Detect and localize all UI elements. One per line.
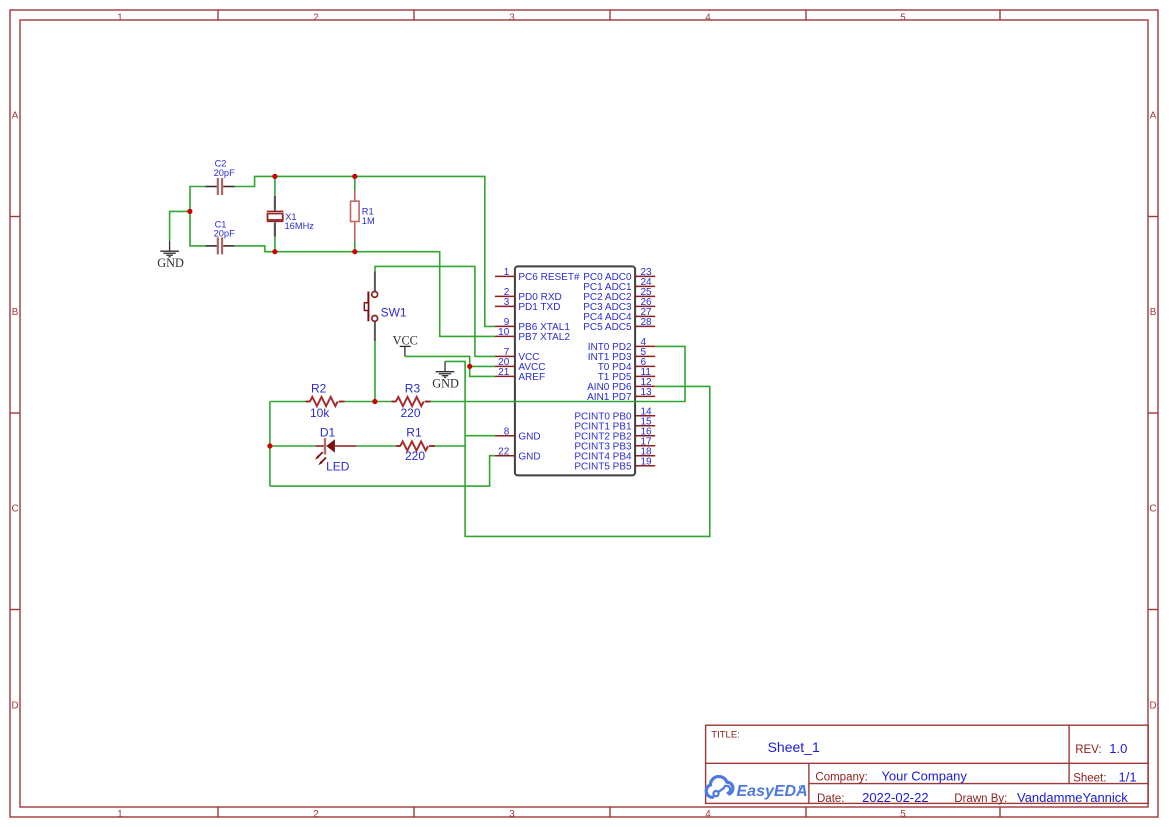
svg-text:2022-02-22: 2022-02-22 [862,790,929,805]
svg-text:8: 8 [504,426,510,437]
svg-text:SW1: SW1 [381,305,407,319]
svg-text:1/1: 1/1 [1119,770,1137,785]
svg-text:1M: 1M [362,216,375,226]
svg-text:REV:: REV: [1075,744,1101,756]
svg-text:D: D [1149,700,1156,711]
svg-text:22: 22 [498,446,510,457]
svg-text:220: 220 [405,449,425,463]
svg-text:28: 28 [641,317,653,328]
svg-text:1: 1 [117,13,122,24]
svg-text:VCC: VCC [393,333,418,347]
svg-text:19: 19 [641,456,653,467]
svg-text:PB7 XTAL2: PB7 XTAL2 [518,332,570,343]
svg-text:4: 4 [705,809,711,820]
svg-text:21: 21 [498,367,510,378]
svg-text:3: 3 [509,809,515,820]
svg-text:2: 2 [313,809,318,820]
svg-text:20pF: 20pF [214,228,236,238]
svg-text:B: B [1150,307,1157,318]
svg-text:Sheet:: Sheet: [1073,773,1106,785]
svg-text:Your Company: Your Company [881,768,967,783]
svg-text:GND: GND [157,256,184,270]
svg-text:EasyEDA: EasyEDA [737,783,808,800]
svg-text:GND: GND [432,377,459,391]
svg-text:TITLE:: TITLE: [711,730,740,741]
svg-text:B: B [12,307,19,318]
svg-text:LED: LED [326,460,350,474]
svg-text:C: C [11,504,18,515]
svg-text:1.0: 1.0 [1109,741,1127,756]
svg-text:1: 1 [504,267,510,278]
svg-text:10: 10 [498,327,510,338]
svg-text:R1: R1 [406,426,422,440]
svg-text:13: 13 [641,387,653,398]
svg-text:D1: D1 [320,426,336,440]
svg-text:3: 3 [504,297,510,308]
svg-text:Date:: Date: [817,793,845,805]
svg-text:D: D [11,700,18,711]
svg-text:5: 5 [900,13,906,24]
svg-text:Company:: Company: [815,771,867,783]
svg-text:5: 5 [900,809,906,820]
svg-text:VandammeYannick: VandammeYannick [1017,790,1128,805]
svg-text:3: 3 [509,13,515,24]
svg-text:A: A [1150,111,1157,122]
svg-text:10k: 10k [310,406,330,420]
svg-text:Sheet_1: Sheet_1 [768,739,820,755]
svg-text:220: 220 [401,406,421,420]
svg-text:PC5 ADC5: PC5 ADC5 [583,322,632,333]
svg-text:C: C [1149,504,1156,515]
svg-text:4: 4 [705,13,711,24]
svg-text:R3: R3 [405,382,421,396]
svg-text:R2: R2 [311,382,327,396]
svg-text:20pF: 20pF [214,168,236,178]
svg-text:2: 2 [313,13,318,24]
svg-text:16MHz: 16MHz [285,221,315,231]
svg-text:GND: GND [518,451,540,462]
svg-text:Drawn By:: Drawn By: [954,793,1007,805]
svg-text:A: A [12,111,19,122]
svg-text:PC6 RESET#: PC6 RESET# [518,272,580,283]
svg-text:PCINT5 PB5: PCINT5 PB5 [574,461,632,472]
svg-text:AIN1 PD7: AIN1 PD7 [587,392,632,403]
svg-text:AREF: AREF [518,372,545,383]
svg-text:GND: GND [518,431,540,442]
svg-text:PD1 TXD: PD1 TXD [518,302,560,313]
svg-text:1: 1 [117,809,122,820]
